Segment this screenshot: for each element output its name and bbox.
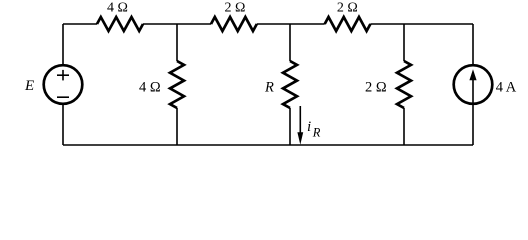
- svg-text:2 Ω: 2 Ω: [365, 80, 387, 96]
- resistor 2 ohm (top middle, horizontal): [211, 17, 257, 31]
- voltage source minus sign: [57, 96, 69, 98]
- wire branch node C (2 ohm shunt): [403, 24, 405, 145]
- voltage source plus sign: [57, 70, 69, 81]
- svg-text:4 Ω: 4 Ω: [139, 80, 161, 96]
- svg-text:2 Ω: 2 Ω: [225, 1, 246, 16]
- wire left rail: [62, 24, 64, 145]
- svg-text:4 Ω: 4 Ω: [107, 1, 128, 16]
- svg-text:2 Ω: 2 Ω: [337, 1, 358, 16]
- resistor 2 ohm (vertical shunt): [397, 61, 411, 108]
- wire top rail: [63, 23, 473, 25]
- voltage source E (circle): [44, 65, 83, 104]
- resistor 4 ohm (vertical shunt): [170, 61, 184, 108]
- svg-text:4 A: 4 A: [496, 80, 517, 96]
- current source 4A (circle): [454, 65, 493, 104]
- wire bottom rail: [63, 144, 473, 146]
- resistor R (vertical shunt): [283, 61, 297, 108]
- wire branch node B (R shunt): [289, 24, 291, 145]
- current source arrow (up): [472, 78, 474, 105]
- wire right rail: [472, 24, 474, 145]
- svg-text:E: E: [24, 78, 34, 94]
- resistor 4 ohm (top left, horizontal): [97, 17, 143, 31]
- svg-text:R: R: [264, 80, 274, 96]
- current arrow i_R (down): [299, 106, 301, 136]
- wire branch node A (4 ohm shunt): [176, 24, 178, 145]
- resistor 2 ohm (top right, horizontal): [325, 17, 371, 31]
- svg-text:i: i: [307, 119, 311, 135]
- svg-text:R: R: [312, 126, 321, 140]
